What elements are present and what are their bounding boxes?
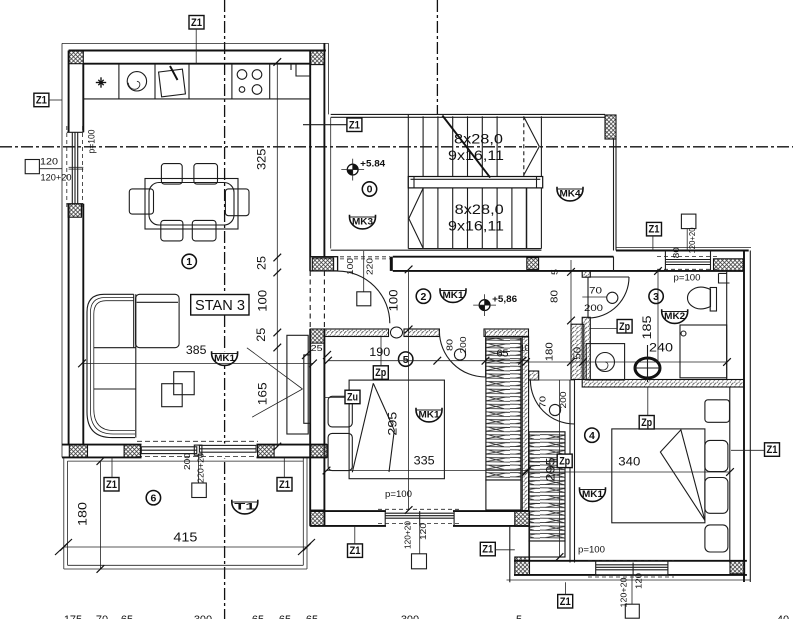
svg-text:65: 65 (121, 614, 133, 619)
svg-text:MK4: MK4 (560, 189, 582, 200)
svg-text:80: 80 (671, 247, 681, 258)
svg-text:p=100: p=100 (674, 273, 701, 284)
svg-text:100: 100 (345, 258, 355, 275)
svg-text:175: 175 (64, 614, 82, 619)
svg-text:65: 65 (279, 614, 291, 619)
svg-text:120: 120 (40, 157, 58, 168)
svg-text:100: 100 (256, 289, 270, 311)
svg-text:295: 295 (544, 457, 558, 481)
svg-text:Zu: Zu (347, 392, 358, 404)
svg-text:25: 25 (254, 327, 268, 341)
svg-text:Zp: Zp (619, 321, 630, 333)
svg-text:MK1: MK1 (582, 489, 604, 500)
svg-text:Z1: Z1 (106, 479, 117, 491)
svg-text:0: 0 (367, 184, 373, 196)
svg-text:190: 190 (369, 347, 390, 359)
svg-text:165: 165 (256, 382, 270, 405)
svg-text:2: 2 (420, 291, 426, 303)
svg-text:100: 100 (387, 289, 401, 311)
svg-text:5: 5 (403, 354, 409, 366)
svg-text:295: 295 (386, 411, 400, 435)
svg-text:p=100: p=100 (385, 489, 412, 500)
svg-text:200: 200 (584, 303, 603, 313)
svg-text:300: 300 (401, 614, 419, 619)
svg-text:415: 415 (173, 531, 197, 545)
svg-text:1: 1 (186, 256, 192, 268)
svg-text:MK1: MK1 (443, 290, 465, 301)
svg-text:80: 80 (445, 339, 455, 351)
svg-text:8x28,0: 8x28,0 (455, 201, 504, 217)
svg-text:Z1: Z1 (482, 544, 493, 556)
svg-text:Z1: Z1 (36, 95, 47, 107)
svg-text:+5.84: +5.84 (360, 158, 386, 169)
svg-text:180: 180 (545, 342, 556, 361)
svg-text:T1: T1 (234, 502, 256, 513)
svg-text:120+20: 120+20 (403, 521, 413, 549)
svg-text:65: 65 (497, 349, 509, 360)
svg-text:185: 185 (640, 315, 654, 339)
svg-text:5: 5 (516, 614, 522, 619)
svg-text:STAN 3: STAN 3 (195, 298, 245, 314)
svg-text:Zp: Zp (559, 455, 570, 467)
svg-text:50: 50 (573, 346, 584, 360)
svg-text:Zp: Zp (375, 367, 386, 379)
svg-text:Z1: Z1 (649, 224, 660, 236)
svg-text:220: 220 (365, 258, 375, 275)
svg-text:200: 200 (458, 336, 468, 353)
svg-text:65: 65 (306, 614, 318, 619)
svg-text:5: 5 (550, 269, 560, 275)
svg-text:+5,86: +5,86 (492, 294, 517, 305)
svg-text:p=100: p=100 (578, 545, 605, 556)
svg-text:9x16,11: 9x16,11 (448, 218, 504, 234)
svg-text:40: 40 (777, 614, 789, 619)
svg-text:MK1: MK1 (214, 353, 236, 364)
svg-text:4: 4 (589, 430, 595, 442)
svg-text:120: 120 (418, 523, 428, 540)
svg-text:120+20: 120+20 (687, 227, 697, 253)
svg-text:p=100: p=100 (87, 130, 98, 154)
svg-text:Z1: Z1 (349, 119, 360, 131)
svg-text:240: 240 (649, 341, 673, 355)
svg-text:70: 70 (96, 614, 108, 619)
svg-text:Z1: Z1 (560, 596, 571, 608)
svg-text:9x16,11: 9x16,11 (448, 147, 504, 163)
svg-text:70: 70 (538, 396, 548, 408)
svg-text:385: 385 (186, 343, 207, 357)
svg-text:MK2: MK2 (664, 311, 685, 322)
svg-text:335: 335 (414, 454, 435, 468)
svg-text:10: 10 (520, 344, 530, 353)
svg-text:70: 70 (589, 286, 602, 296)
svg-text:25: 25 (311, 343, 323, 353)
svg-text:65: 65 (252, 614, 264, 619)
svg-text:340: 340 (618, 454, 640, 468)
svg-text:120: 120 (634, 573, 644, 589)
svg-text:Z1: Z1 (279, 479, 290, 491)
svg-text:25: 25 (255, 256, 269, 270)
svg-text:220+20: 220+20 (196, 453, 206, 483)
svg-text:120+20: 120+20 (41, 173, 72, 184)
svg-text:MK1: MK1 (419, 410, 441, 421)
svg-text:80: 80 (550, 289, 561, 303)
svg-text:8x28,0: 8x28,0 (454, 131, 503, 147)
svg-text:Z1: Z1 (767, 444, 778, 456)
svg-text:300: 300 (194, 614, 212, 619)
svg-text:6: 6 (150, 492, 156, 504)
svg-text:MK3: MK3 (352, 217, 373, 228)
svg-text:Z1: Z1 (191, 17, 202, 29)
svg-text:200: 200 (182, 453, 192, 470)
svg-text:120+20: 120+20 (618, 577, 628, 607)
svg-text:325: 325 (255, 148, 269, 170)
svg-text:Z1: Z1 (350, 545, 361, 557)
svg-text:Zp: Zp (641, 417, 652, 429)
svg-text:180: 180 (76, 502, 90, 526)
